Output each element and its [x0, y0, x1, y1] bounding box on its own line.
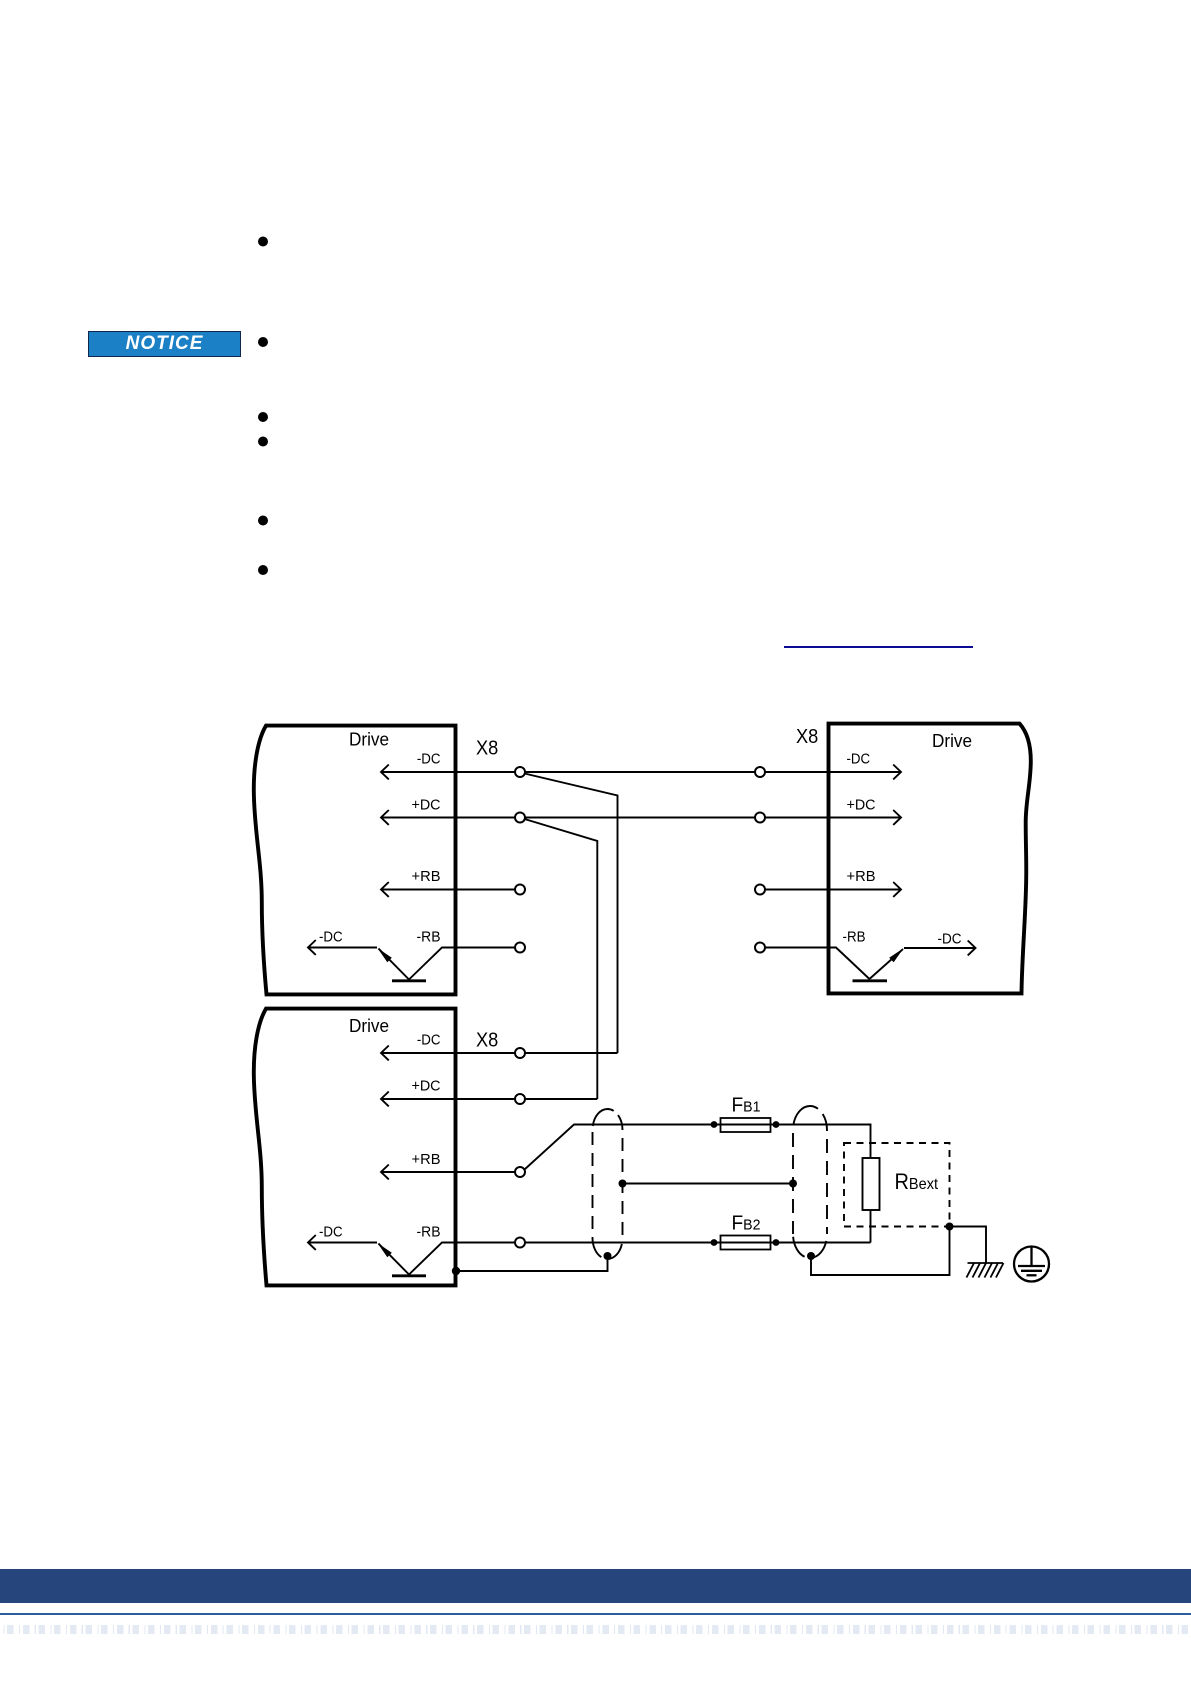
- svg-text:Drive: Drive: [932, 730, 972, 751]
- svg-text:-DC: -DC: [319, 1224, 343, 1241]
- svg-text:Drive: Drive: [349, 729, 389, 750]
- svg-text:-DC: -DC: [847, 750, 871, 767]
- svg-text:Drive: Drive: [349, 1015, 389, 1036]
- svg-text:RBext: RBext: [895, 1169, 939, 1194]
- svg-text:-DC: -DC: [417, 750, 441, 767]
- svg-text:X8: X8: [476, 737, 498, 760]
- svg-text:-DC: -DC: [417, 1032, 441, 1049]
- svg-text:+DC: +DC: [847, 796, 876, 813]
- svg-text:+RB: +RB: [847, 868, 876, 885]
- svg-text:-RB: -RB: [417, 929, 441, 946]
- svg-text:+DC: +DC: [412, 796, 441, 813]
- svg-text:+RB: +RB: [412, 1151, 441, 1168]
- svg-text:+RB: +RB: [412, 868, 441, 885]
- svg-text:-DC: -DC: [938, 931, 962, 948]
- svg-text:FB1: FB1: [732, 1093, 761, 1116]
- svg-text:+DC: +DC: [412, 1078, 441, 1095]
- svg-text:FB2: FB2: [732, 1211, 761, 1234]
- svg-text:-DC: -DC: [319, 929, 343, 946]
- svg-text:-RB: -RB: [417, 1224, 441, 1241]
- svg-text:-RB: -RB: [843, 929, 866, 946]
- svg-text:X8: X8: [796, 725, 818, 748]
- svg-text:X8: X8: [476, 1028, 498, 1051]
